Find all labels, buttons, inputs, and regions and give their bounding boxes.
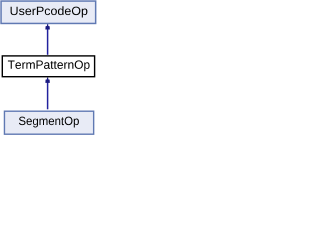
node TermPatternOp — [2, 56, 94, 77]
wire arrow SegmentOp to TermPatternOp — [45, 78, 50, 110]
node UserPcodeOp — [1, 1, 96, 23]
node SegmentOp — [4, 111, 93, 134]
wire arrow TermPatternOp to UserPcodeOp — [45, 24, 50, 55]
background — [0, 0, 97, 136]
